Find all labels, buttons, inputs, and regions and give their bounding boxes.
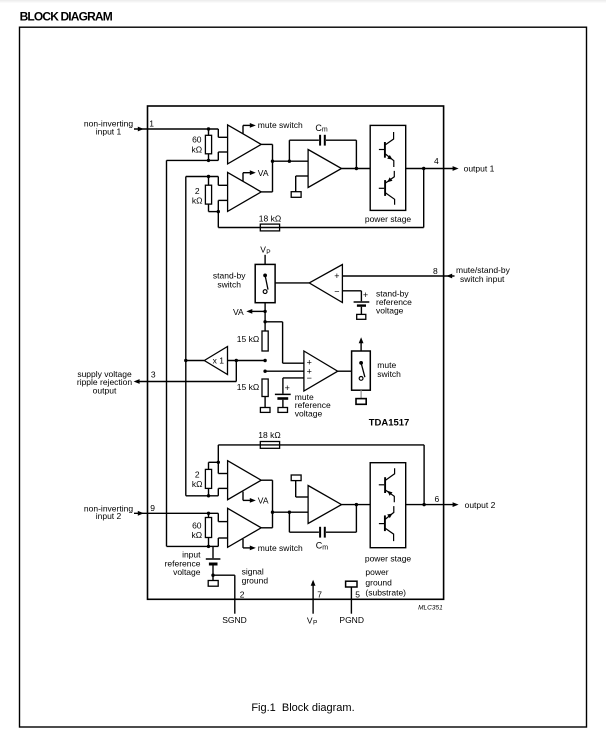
wire main signal line to op-amp A3 — [273, 160, 309, 162]
op-amp A7 output opamp 2 — [308, 486, 341, 524]
wire bend into amp A1 - input — [209, 159, 219, 161]
node merge junction (ch1) — [271, 160, 274, 163]
wire pin 5 PGND — [350, 587, 352, 614]
svg-text:kΩ: kΩ — [191, 530, 202, 540]
switch stand-by contacts — [263, 274, 267, 278]
svg-text:P: P — [313, 619, 317, 626]
node VA tap — [263, 310, 266, 313]
svg-text:power: power — [365, 567, 388, 577]
wire 2k top stub — [208, 177, 210, 186]
resistor 60 k-ohm (ch1) — [205, 135, 211, 154]
op-amp A2 VA amplifier 1 — [228, 172, 262, 211]
op-amp A5 VA amplifier 2 — [228, 461, 262, 500]
svg-text:switch: switch — [377, 369, 401, 379]
wire 60k bottom stub (ch2) — [208, 538, 210, 547]
svg-text:ground: ground — [242, 576, 269, 586]
svg-text:SGND: SGND — [222, 615, 247, 625]
svg-text:60: 60 — [192, 520, 202, 530]
svg-text:+: + — [363, 290, 368, 300]
resistor 2 k-ohm (ch2) — [205, 469, 211, 488]
op-amp A3 output opamp 1 — [308, 150, 341, 188]
svg-text:BLOCK DIAGRAM: BLOCK DIAGRAM — [20, 10, 113, 24]
svg-text:TDA1517: TDA1517 — [369, 417, 410, 428]
ground pad (mute switch) — [356, 399, 366, 405]
op-amp A1 input amplifier 1 — [228, 125, 262, 164]
wire mute switch up arrow — [360, 340, 362, 351]
svg-text:60: 60 — [192, 135, 202, 145]
wire Cm feedback left leg (ch1) — [288, 140, 290, 161]
wire 60k bottom stub — [208, 154, 210, 161]
wire 60k bottom to rail A (ch2) — [167, 545, 209, 547]
wire signal ground to pin 2 — [213, 574, 235, 576]
svg-text:MLC351: MLC351 — [418, 605, 443, 612]
switch stand-by switch box — [255, 264, 275, 302]
svg-text:−: − — [307, 373, 312, 383]
svg-text:15 kΩ: 15 kΩ — [237, 382, 259, 392]
svg-text:kΩ: kΩ — [192, 196, 203, 206]
svg-text:4: 4 — [434, 156, 439, 166]
node half-supply divider node — [263, 359, 266, 362]
svg-text:VA: VA — [258, 168, 269, 178]
svg-text:voltage: voltage — [173, 567, 201, 577]
resistor 15 k-ohm lower — [262, 379, 268, 397]
svg-text:output: output — [93, 386, 117, 396]
svg-text:5: 5 — [355, 590, 360, 600]
wire bend into amp A6 + input — [217, 513, 219, 521]
wire pin 9 input — [134, 512, 218, 514]
wire VA arrow — [251, 310, 265, 312]
wire into amp A5 - input — [218, 473, 227, 475]
node 60k top junction — [207, 127, 210, 130]
svg-text:2: 2 — [240, 590, 245, 600]
node input reference junction — [211, 574, 214, 577]
svg-text:x 1: x 1 — [213, 355, 225, 365]
svg-text:(substrate): (substrate) — [365, 588, 406, 598]
capacitor Cm (ch1) — [319, 135, 321, 146]
svg-text:7: 7 — [317, 590, 322, 600]
wire mute switch tap (ch1) — [242, 125, 244, 133]
svg-text:9: 9 — [150, 503, 155, 513]
wire VA tap (ch1) — [242, 173, 244, 181]
svg-text:−: − — [334, 286, 339, 296]
node feedback tap pin6 — [422, 503, 425, 506]
node merge junction (ch2) — [271, 511, 274, 514]
svg-text:PGND: PGND — [339, 615, 364, 625]
wire rail B to 2k top and amp A2 + input — [186, 176, 219, 178]
node Cm feedback tap (ch1) — [288, 160, 291, 163]
wire rail B to 2k bottom and amp A5 + input — [186, 495, 219, 497]
wire 15k lower to ground — [264, 397, 266, 408]
wire stand-by switch to VA node — [264, 303, 266, 331]
wire rail B (VA rail) — [185, 177, 187, 496]
ground pad (stand-by reference) — [357, 314, 366, 319]
wire mute amp output to mute switch — [338, 370, 352, 372]
op-amp x1 buffer — [204, 347, 227, 375]
svg-text:15 kΩ: 15 kΩ — [237, 334, 259, 344]
ground pad (input reference) — [208, 581, 218, 587]
wire feedback to 2k bottom (ch1) — [217, 200, 219, 227]
wire x1 output to rail B — [186, 360, 205, 362]
wire divider to mute amp + input 2 — [265, 370, 304, 372]
svg-text:VA: VA — [258, 496, 269, 506]
wire 2k top stub (ch2) — [208, 462, 210, 469]
resistor 2 k-ohm (ch1) — [205, 185, 211, 204]
node pin3 tap on divider node — [235, 359, 238, 362]
resistor 18 k-ohm (ch2) — [260, 442, 279, 449]
switch mute switch contacts — [359, 361, 363, 365]
svg-text:kΩ: kΩ — [192, 479, 203, 489]
wire feedback to 2k top (ch2) — [217, 445, 219, 474]
node 2k bottom junction (ch2) — [207, 494, 210, 497]
pad power ground substrate pad — [346, 581, 357, 587]
node 60k bottom junction — [207, 159, 210, 162]
node 2k top junction (ch2) — [217, 461, 220, 464]
svg-text:18 kΩ: 18 kΩ — [259, 214, 281, 224]
wire feedback vertical (ch1) — [423, 169, 425, 228]
svg-text:switch input: switch input — [460, 274, 505, 284]
svg-text:m: m — [322, 127, 328, 134]
ground pad (divider) — [260, 408, 270, 413]
svg-text:+: + — [334, 271, 339, 281]
node 2k bottom junction (ch1) — [217, 210, 220, 213]
wire bend into amp A6 - input — [209, 545, 219, 547]
wire into amp A2 - input — [218, 199, 227, 201]
wire mute switch bottom stub — [360, 390, 362, 398]
svg-text:3: 3 — [151, 369, 156, 379]
wire ground stub into A7 — [296, 496, 308, 498]
node Cm feedback tap (ch2) — [288, 511, 291, 514]
wire 60k top stub (ch2) — [208, 513, 210, 517]
node Cm right junction (ch2) — [355, 503, 358, 506]
svg-text:voltage: voltage — [295, 408, 323, 418]
wire 2k bottom stub — [208, 204, 210, 212]
svg-text:power stage: power stage — [365, 214, 412, 224]
svg-text:output 2: output 2 — [465, 500, 496, 510]
node x1 output on rail B — [184, 359, 187, 362]
svg-text:2: 2 — [195, 469, 200, 479]
svg-text:input 2: input 2 — [96, 511, 122, 521]
wire power stage 2 output to pin 6 — [406, 504, 454, 506]
svg-text:6: 6 — [435, 494, 440, 504]
svg-text:+: + — [285, 383, 290, 393]
svg-text:kΩ: kΩ — [191, 144, 202, 154]
wire A7 output to power stage 2 — [342, 504, 371, 506]
ground signal-ground pad (ch2) — [291, 475, 301, 481]
svg-text:Fig.1 Block diagram.: Fig.1 Block diagram. — [251, 702, 354, 714]
wire input reference to ground pad — [212, 575, 214, 580]
wire main signal line to op-amp A7 — [273, 511, 309, 513]
op-amp U2 mute amplifier — [304, 351, 338, 391]
wire power stage 1 output to pin 4 — [406, 168, 454, 170]
wire Cm feedback left leg (ch2) — [288, 512, 290, 532]
op-amp U1 stand-by comparator — [309, 265, 342, 303]
svg-text:V: V — [307, 615, 313, 625]
wire feedback horizontal 18k (ch2) — [218, 444, 424, 446]
op-amp A6 input amplifier 2 — [228, 508, 262, 547]
wire feedback horizontal 18k (ch1) — [218, 227, 423, 229]
resistor 60 k-ohm (ch2) — [205, 518, 211, 538]
resistor 15 k-ohm upper — [262, 331, 268, 351]
wire pin 7 Vp supply — [312, 582, 314, 614]
svg-text:input 1: input 1 — [96, 126, 122, 136]
node 60k bottom junction (ch2) — [207, 545, 210, 548]
IC boundary box TDA1517 — [148, 106, 444, 599]
wire mute amp - input to mute reference — [283, 377, 304, 379]
transistor Q1 upper NPN (power stage 1) — [379, 132, 395, 205]
wire pin 3 ripple rejection output — [235, 361, 237, 382]
wire VA to mute amp + input — [265, 321, 283, 323]
svg-text:m: m — [322, 545, 328, 552]
wire Vp to stand-by switch — [264, 255, 266, 265]
svg-text:mute switch: mute switch — [258, 120, 303, 130]
node Cm right junction (ch1) — [355, 167, 358, 170]
svg-text:18 kΩ: 18 kΩ — [258, 430, 280, 440]
wire VA tap (ch2) — [242, 492, 244, 501]
svg-text:voltage: voltage — [376, 305, 404, 315]
wire pin 8 input — [342, 275, 454, 277]
wire feedback vertical (ch2) — [423, 445, 425, 505]
svg-text:power stage: power stage — [365, 554, 412, 564]
node 60k top junction (ch2) — [207, 512, 210, 515]
wire Cm feedback right leg (ch1) — [326, 139, 356, 141]
wire rail A (input reference rail) — [166, 160, 168, 546]
wire amp outputs merge vertical (ch1) — [261, 143, 272, 145]
ground pad (mute reference) — [278, 408, 288, 413]
svg-text:P: P — [266, 249, 270, 256]
svg-text:1: 1 — [149, 118, 154, 128]
wire pin 1 input — [134, 128, 218, 130]
battery stand-by reference voltage — [354, 301, 370, 303]
switch mute switch box — [352, 351, 371, 390]
wire amp outputs merge vertical (ch2) — [261, 479, 272, 481]
wire bend into amp A1 + input — [217, 129, 219, 137]
resistor 18 k-ohm (ch1) — [260, 224, 279, 231]
node feedback tap pin4 — [422, 167, 425, 170]
svg-text:ground: ground — [365, 577, 392, 587]
wire ground stub into A3 — [296, 175, 308, 177]
svg-text:8: 8 — [433, 266, 438, 276]
battery input reference voltage — [212, 546, 214, 558]
power stage 1 box — [370, 125, 406, 210]
wire 60k top stub — [208, 129, 210, 135]
wire mute switch tap (ch2) — [242, 539, 244, 548]
svg-text:switch: switch — [217, 280, 241, 290]
wire Cm feedback right leg (ch2) — [326, 531, 356, 533]
ground signal-ground pad (ch1) — [291, 192, 301, 198]
node 2k top junction (ch1) — [207, 175, 210, 178]
battery mute reference voltage — [275, 393, 291, 395]
wire 2k bottom stub (ch2) — [208, 488, 210, 495]
node mute amp + tap — [263, 320, 266, 323]
capacitor Cm (ch2) — [319, 527, 321, 538]
wire A3 output to power stage 1 — [342, 168, 371, 170]
wire stand-by switch output to comparator — [275, 282, 309, 284]
wire divider node to x1 buffer input — [228, 360, 266, 362]
svg-text:VA: VA — [233, 307, 244, 317]
svg-text:mute switch: mute switch — [258, 543, 303, 553]
wire comparator - input to stand-by reference — [342, 290, 361, 292]
svg-text:output 1: output 1 — [464, 164, 495, 174]
transistor Q2 lower PNP (power stage 1) — [384, 180, 386, 196]
node mute amp second + tap — [263, 370, 266, 373]
svg-text:2: 2 — [195, 186, 200, 196]
power stage 2 box and transistors (mirrored) — [370, 463, 406, 548]
wire 60k bottom to rail A — [167, 159, 209, 161]
